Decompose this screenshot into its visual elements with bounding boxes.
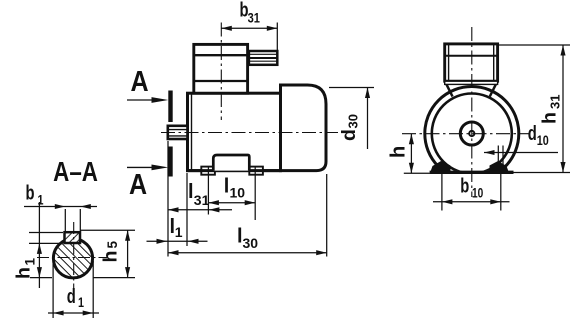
extension line cover right — [326, 174, 328, 257]
svg-text:A: A — [131, 65, 149, 97]
dimension h — [404, 172, 430, 174]
svg-text:d: d — [338, 129, 360, 141]
section plane stroke lower — [168, 147, 172, 177]
svg-text:A–A: A–A — [53, 157, 98, 188]
shaft hub small circle — [460, 122, 483, 145]
rear view vertical centerline — [471, 27, 473, 197]
outer circle — [425, 87, 519, 181]
end shield joint line — [191, 93, 193, 170]
svg-text:1: 1 — [175, 224, 183, 240]
vertical centerline of shaft section — [73, 222, 75, 301]
svg-text:h: h — [388, 146, 410, 158]
shaft section circle (hatched) — [53, 239, 92, 278]
svg-text:h: h — [100, 251, 122, 263]
extension line shaft end — [167, 141, 169, 257]
dimension l30 — [168, 252, 327, 254]
fan cover — [281, 85, 327, 171]
svg-text:10: 10 — [230, 185, 246, 201]
section plane stroke upper — [168, 91, 172, 123]
shaft — [168, 126, 188, 139]
terminal box — [194, 44, 248, 93]
dimension b10 — [441, 174, 443, 211]
svg-text:31: 31 — [548, 95, 563, 109]
svg-text:d: d — [67, 284, 76, 307]
svg-text:30: 30 — [346, 114, 361, 128]
svg-text:b: b — [26, 181, 35, 204]
svg-text:1: 1 — [23, 258, 38, 266]
horizontal centerline of motor — [161, 132, 338, 134]
dimension d10 — [484, 152, 558, 154]
right foot wedge — [490, 161, 510, 174]
svg-text:b: b — [460, 174, 469, 197]
svg-text:h: h — [539, 112, 561, 124]
dimension b31 — [276, 23, 278, 52]
section arrow A bottom — [127, 166, 153, 168]
svg-text:31: 31 — [248, 10, 260, 25]
svg-text:h: h — [13, 267, 35, 279]
body bottom line over pads — [186, 169, 282, 172]
horizontal centerline of shaft section — [37, 257, 108, 259]
svg-text:A: A — [129, 169, 147, 201]
rear view horizontal centerline — [402, 133, 529, 135]
svg-text:5: 5 — [105, 241, 120, 249]
terminal box centerline — [220, 23, 222, 121]
box shoulders — [447, 84, 453, 96]
inner circle — [432, 94, 512, 174]
extension line pad1 center — [207, 167, 209, 215]
dimension h1 — [29, 232, 63, 234]
svg-text:31: 31 — [194, 192, 210, 208]
dimension l1 — [147, 240, 208, 242]
svg-text:10: 10 — [472, 185, 484, 201]
ground baseline — [430, 171, 514, 174]
svg-text:d: d — [528, 121, 537, 144]
extension line pad2 center — [254, 167, 256, 220]
dimension h5 — [80, 229, 135, 231]
svg-text:l: l — [188, 181, 194, 203]
key (hatched) — [65, 232, 81, 243]
dimension d1 — [52, 261, 54, 318]
foot bracket — [213, 155, 249, 171]
dimension l10 — [208, 202, 255, 204]
foot pads — [201, 167, 215, 175]
section arrow A top — [127, 99, 153, 101]
extension line body left edge — [186, 173, 188, 246]
dimension h31 — [498, 44, 570, 46]
cable entry connector — [249, 51, 277, 65]
terminal box rear — [445, 44, 498, 81]
motor body outline — [188, 93, 281, 170]
svg-text:10: 10 — [537, 133, 549, 148]
dimension d30 — [329, 87, 374, 89]
left foot wedge — [430, 161, 451, 174]
svg-text:1: 1 — [78, 295, 84, 310]
svg-text:30: 30 — [243, 235, 259, 251]
svg-text:1: 1 — [38, 192, 44, 207]
dimension l31 — [168, 209, 232, 211]
center hole — [469, 131, 474, 136]
